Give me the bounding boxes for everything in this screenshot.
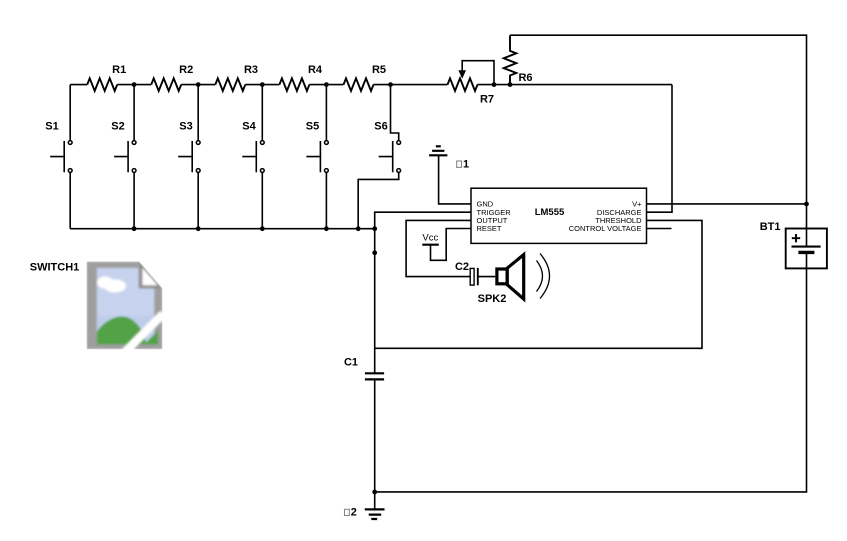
resistor R4 [279,78,309,91]
svg-text:R4: R4 [308,64,323,76]
junction node R2/R3 [196,82,201,87]
svg-text:S1: S1 [45,121,58,133]
svg-text:LM555: LM555 [535,207,565,218]
junction bus S2 [132,226,137,231]
junction node R5/S6 [388,82,393,87]
ground net GND1 symbol (pointing up) [429,146,447,155]
junction R6 bottom [508,82,513,87]
resistor R1 [87,78,117,91]
wire C1 bottom to ground bus [374,379,376,492]
wire C2 to speaker [478,276,496,278]
junction trigger wire node [372,250,377,255]
resistor R5 [344,78,374,91]
svg-text:R2: R2 [179,64,193,76]
junction bus S3 [196,226,201,231]
wire bottom ground bus to battery minus [375,252,807,492]
junction node R1/R2 [132,82,137,87]
svg-text:C1: C1 [344,357,358,369]
net label GND2 [345,507,357,519]
wire switch bottom bus [70,228,375,230]
wire V+ pin to battery line [647,203,807,205]
junction node R4/R5 [324,82,329,87]
svg-text:S5: S5 [306,121,319,133]
speaker SPK2 [497,254,550,300]
svg-text:C2: C2 [455,261,469,273]
potentiometer R7 [448,78,478,91]
pushbutton S2 [114,85,136,229]
junction V+ / battery [804,202,809,207]
svg-text:RESET: RESET [477,224,502,233]
svg-text:R1: R1 [112,64,126,76]
resistor R6 [504,35,517,84]
op-amp/timer IC U1 LM555 box [471,188,647,243]
ground net GND2 symbol [365,492,385,519]
svg-text:S6: S6 [374,121,387,133]
svg-text:R5: R5 [372,64,386,76]
svg-text:1: 1 [463,159,469,171]
svg-text:SWITCH1: SWITCH1 [30,262,80,274]
wire CONTROL VOLTAGE stub [647,228,672,230]
svg-text:S2: S2 [111,121,124,133]
pushbutton S4 [242,85,264,229]
battery BT1 [786,229,827,269]
resistor R2 [151,78,181,91]
junction bus S6 branch [356,226,361,231]
junction bus S4 [260,226,265,231]
capacitor C2 (polarized) [470,268,478,285]
svg-text:S4: S4 [242,121,256,133]
junction bus S5 [324,226,329,231]
svg-text:R7: R7 [480,94,494,106]
svg-text:2: 2 [351,507,357,519]
capacitor C1 [365,373,384,379]
svg-text:R3: R3 [244,64,258,76]
pushbutton S3 [178,85,200,229]
svg-text:BT1: BT1 [760,221,781,233]
wire DISCHARGE pin up to top rail [647,85,673,213]
pushbutton S6 [358,85,400,229]
resistor R3 [215,78,245,91]
power net Vcc symbol [422,244,439,246]
junction node R3/R4 [260,82,265,87]
pushbutton S5 [306,85,328,229]
potentiometer R7 wiper [458,61,494,85]
wire GND pin to ground symbol [439,155,471,204]
pushbutton S1 [50,85,72,229]
wire TRIGGER pin down to C1 top [375,212,471,373]
net label GND1 [457,159,469,171]
wire OUTPUT pin to C2 [406,220,471,276]
svg-text:CONTROL VOLTAGE: CONTROL VOLTAGE [569,224,642,233]
svg-text:S3: S3 [179,121,192,133]
wire top rail (between resistors) [70,84,672,86]
svg-text:Vcc: Vcc [422,233,438,244]
wire THRESHOLD pin down to C1 top rail [375,220,702,348]
wire RESET pin to Vcc [431,229,472,261]
svg-text:R6: R6 [518,72,532,84]
wire R6 top to battery plus [510,35,807,246]
image placeholder icon SWITCH1 [87,262,166,357]
junction bus / trigger wire [372,226,377,231]
svg-text:SPK2: SPK2 [478,293,507,305]
junction C1 bottom / ground bus [372,490,377,495]
junction R7 wiper [492,82,497,87]
